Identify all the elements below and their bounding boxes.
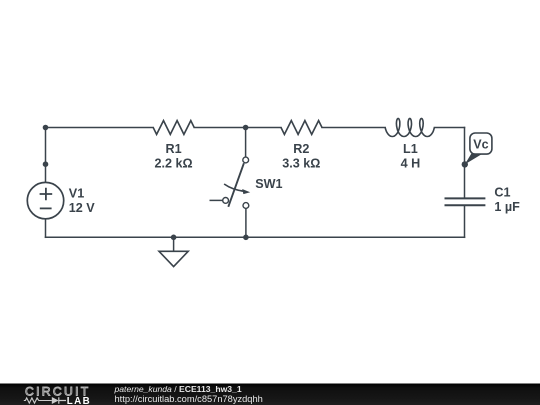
svg-text:3.3 kΩ: 3.3 kΩ xyxy=(282,157,320,171)
svg-text:12 V: 12 V xyxy=(69,201,96,215)
wire: R1 to node A junction xyxy=(194,127,245,129)
switch SW1 arc arrowhead xyxy=(242,189,250,194)
node Vc probe dot xyxy=(462,161,468,167)
ground symbol triangle xyxy=(159,251,188,266)
wire: V1 bottom terminal down to bottom-left corner xyxy=(45,219,47,238)
V1 minus sign xyxy=(40,207,52,209)
node A junction dot R1/R2/SW1 xyxy=(243,125,249,131)
svg-text:4 H: 4 H xyxy=(401,157,421,171)
svg-text:1 µF: 1 µF xyxy=(494,200,520,214)
capacitor C1 bottom plate xyxy=(445,204,486,206)
svg-text:2.2 kΩ: 2.2 kΩ xyxy=(155,157,193,171)
svg-text:Vc: Vc xyxy=(473,138,488,152)
resistor R2 zigzag xyxy=(281,121,322,135)
wire: C1 bottom plate down to bottom rail xyxy=(464,205,466,237)
svg-text:R2: R2 xyxy=(293,142,309,156)
wire: left vertical from top-left corner to V1 top terminal xyxy=(45,128,47,183)
node dot: V1 top terminal xyxy=(43,161,49,167)
svg-text:LAB: LAB xyxy=(67,396,91,405)
svg-text:R1: R1 xyxy=(166,142,182,156)
node dot: switch bottom on bottom rail xyxy=(243,235,249,241)
svg-text:L1: L1 xyxy=(403,142,418,156)
Vc probe pointer wedge xyxy=(465,154,482,165)
V1 plus sign xyxy=(40,188,53,201)
svg-text:SW1: SW1 xyxy=(255,177,282,191)
svg-text:http://circuitlab.com/c857n78y: http://circuitlab.com/c857n78yzdqhh xyxy=(115,394,263,404)
svg-text:paterne_kunda / ECE113_hw3_1: paterne_kunda / ECE113_hw3_1 xyxy=(114,384,242,394)
node dot: ground junction on bottom rail xyxy=(171,235,177,241)
switch SW1 blade xyxy=(228,163,244,207)
Vc label box xyxy=(470,133,492,154)
capacitor C1 top plate xyxy=(445,197,486,199)
switch SW1 bottom throw terminal circle xyxy=(243,203,249,209)
wire: top rail, left corner to R1 xyxy=(46,127,154,129)
wire: node A junction to R2 xyxy=(246,127,282,129)
resistor R1 zigzag xyxy=(153,121,194,135)
inductor L1 coil xyxy=(385,119,434,137)
svg-text:V1: V1 xyxy=(69,187,84,201)
wire: right vertical, top corner down to C1 top plate xyxy=(464,128,466,199)
logo diode symbol xyxy=(52,397,59,404)
switch SW1 actuation arc xyxy=(224,184,245,191)
switch SW1 left throw stub wire xyxy=(210,199,223,201)
logo resistor zigzag xyxy=(24,398,52,403)
voltage source V1 circle xyxy=(27,182,63,218)
svg-text:C1: C1 xyxy=(494,186,510,200)
ground stub wire xyxy=(173,237,175,251)
wire: R2 to L1 xyxy=(322,127,385,129)
switch SW1 top terminal circle xyxy=(243,157,249,163)
switch SW1 left throw terminal circle xyxy=(223,198,229,204)
node dot: top-left corner xyxy=(43,125,49,131)
wire: L1 to top-right corner xyxy=(434,127,464,129)
wire: bottom rail from left corner to right corner xyxy=(46,236,465,238)
wire: switch bottom throw down to bottom rail xyxy=(245,209,247,238)
footer bar background xyxy=(0,384,540,405)
wire: switch top lead from node A xyxy=(245,128,247,157)
